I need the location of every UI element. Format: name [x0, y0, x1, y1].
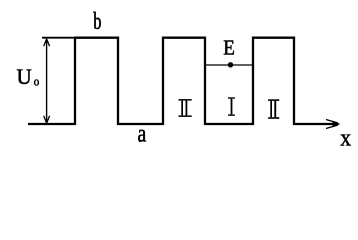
region numeral II (second barrier region) [268, 99, 279, 118]
U0 dimension arrow shaft [46, 40, 48, 123]
svg-text:a: a [138, 121, 147, 148]
svg-text:b: b [93, 8, 101, 35]
region numeral II (first barrier region) [179, 99, 192, 117]
svg-text:U: U [17, 64, 32, 89]
U0 arrow head top [44, 39, 50, 46]
U0 arrow head bottom [44, 116, 50, 123]
region numeral I (well region) [228, 97, 235, 116]
U0 top reference extension line [42, 37, 75, 39]
x-axis arrow barb lower [326, 125, 338, 129]
particle dot on E level [228, 62, 233, 67]
svg-text:E: E [223, 36, 235, 60]
energy level E line [205, 64, 253, 66]
x-axis arrowhead [333, 121, 340, 127]
svg-text:x: x [340, 125, 351, 152]
x-axis arrow barb upper [326, 120, 338, 124]
potential profile polyline (periodic square barriers) [28, 38, 334, 124]
svg-text:o: o [34, 74, 40, 89]
